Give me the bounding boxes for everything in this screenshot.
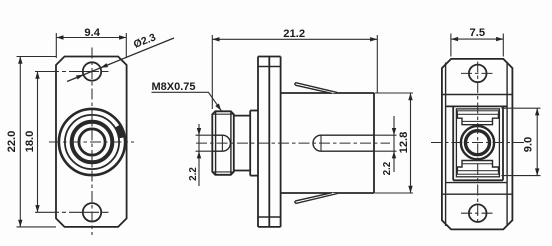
- front vertical centerline: [91, 48, 93, 236]
- front top screw hole: [83, 62, 101, 80]
- back bottom hole centerline: [461, 212, 494, 214]
- SC top key bar: [457, 111, 498, 115]
- SC shoulder line top / square outer top: [446, 105, 508, 107]
- left 2.2 dim line middle: [198, 135, 200, 151]
- flange front face: [257, 57, 259, 227]
- left 2.2 extension top: [196, 134, 213, 136]
- leader line dia 2.3 through hole: [67, 38, 174, 82]
- back ferrule circle inner: [466, 131, 490, 155]
- collar left edge: [249, 111, 251, 176]
- SC square outer bottom: [453, 179, 503, 181]
- flange chamfer line bottom: [258, 216, 281, 218]
- left 2.2 dim line lower: [198, 151, 200, 186]
- back plate inner contour left: [445, 63, 447, 227]
- body right edge: [373, 93, 375, 193]
- svg-text:22.0: 22.0: [6, 131, 18, 153]
- dimension 9.4 line: [56, 37, 126, 39]
- flange back face / body front: [280, 57, 282, 227]
- back top screw hole: [469, 65, 487, 83]
- thread chamfer line left: [215, 112, 217, 175]
- 9.4 extension left: [55, 33, 57, 58]
- front bottom screw hole: [83, 203, 101, 221]
- dimension 18.0 line: [37, 72, 39, 213]
- 22.0 extension top: [17, 56, 57, 58]
- front horizontal centerline: [49, 141, 134, 143]
- front connector circle 2: [65, 115, 119, 169]
- svg-text:M8X0.75: M8X0.75: [152, 81, 196, 93]
- dimension 7.5 line: [451, 38, 503, 40]
- flange chamfer line top: [258, 66, 281, 68]
- SC bottom key bar: [457, 171, 498, 175]
- bottom hole centerline / 18.0 extension: [35, 211, 109, 213]
- collar bottom edge: [250, 175, 258, 177]
- SC bottom key bracket: [457, 161, 498, 171]
- back plate outline: [442, 59, 513, 230]
- top hole centerline / 18.0 extension: [35, 71, 109, 73]
- dimension 21.2 line: [212, 38, 377, 40]
- dia 2.3 arrow upper-right: [101, 64, 110, 68]
- left 2.2 extension bottom: [196, 150, 213, 152]
- front key notch wedge: [115, 125, 125, 139]
- stub bore slot top line: [212, 134, 222, 136]
- flange top edge: [258, 56, 281, 58]
- front connector circle inner: [79, 129, 105, 155]
- svg-text:2.2: 2.2: [382, 161, 393, 175]
- right 2.2 extension bottom: [374, 150, 397, 152]
- back step line top: [442, 94, 513, 96]
- svg-text:21.2: 21.2: [283, 28, 305, 40]
- back top hole centerline: [461, 72, 494, 74]
- front plate outline: [56, 57, 127, 227]
- 7.5 extension right: [502, 34, 504, 57]
- bottom latch arm: [295, 193, 338, 204]
- front connector circle outer: [59, 109, 125, 175]
- 9.4 extension right: [125, 33, 127, 58]
- SC square left wall: [452, 106, 454, 180]
- body slot bottom line: [321, 150, 374, 152]
- stub bore slot tangent line: [221, 135, 223, 151]
- washer ring top edge: [234, 115, 250, 117]
- top latch arm: [295, 83, 338, 94]
- SC top key midline: [462, 120, 493, 122]
- left 2.2 dim line upper: [198, 124, 200, 135]
- back step line bottom: [442, 193, 513, 195]
- dimension 9.0 line: [536, 108, 538, 175]
- thread root line bottom: [213, 171, 234, 173]
- flange mid line: [268, 57, 270, 227]
- thread chamfer line right: [230, 112, 232, 175]
- body slot tangent line: [320, 135, 322, 151]
- thread root line top: [213, 113, 234, 115]
- SC square inner rect: [456, 109, 499, 177]
- body slot end arc: [313, 135, 321, 151]
- middle view centerline: [196, 142, 390, 144]
- 22.0 extension bottom: [17, 226, 57, 228]
- back vertical centerline: [477, 62, 479, 225]
- flange bottom edge: [258, 226, 281, 228]
- 21.2 extension right: [376, 35, 378, 93]
- dimension 22.0 line: [19, 57, 21, 227]
- right 2.2 dim line lower: [393, 151, 395, 172]
- svg-text:18.0: 18.0: [24, 131, 36, 153]
- body top edge: [281, 92, 374, 94]
- SC bottom key midline: [462, 163, 493, 165]
- 9.0 extension bottom: [501, 175, 540, 177]
- svg-text:9.4: 9.4: [84, 27, 100, 39]
- stub bore slot end arc: [222, 135, 230, 151]
- svg-text:12.8: 12.8: [398, 132, 410, 154]
- SC square right wall: [502, 106, 504, 180]
- collar top edge: [250, 110, 258, 112]
- back plate inner contour right: [506, 63, 508, 227]
- 21.2 extension left: [211, 35, 213, 109]
- SC top key bracket: [457, 114, 498, 124]
- threaded stub outline M8: [212, 111, 234, 175]
- svg-text:2.2: 2.2: [188, 167, 199, 181]
- front connector circle 3: [72, 122, 113, 163]
- 9.0 extension top: [501, 107, 540, 109]
- stub bore slot bottom line: [212, 150, 222, 152]
- M8X0.75 leader: [152, 92, 222, 110]
- svg-text:7.5: 7.5: [470, 27, 486, 39]
- back horizontal centerline: [431, 142, 524, 144]
- body bottom edge: [281, 192, 374, 194]
- 12.8 extension bottom: [375, 192, 414, 194]
- right 2.2 extension top: [374, 134, 397, 136]
- svg-text:9.0: 9.0: [523, 137, 535, 153]
- back bottom screw hole: [469, 204, 487, 222]
- back ferrule circle outer: [461, 126, 494, 159]
- dimension 12.8 line: [410, 93, 412, 193]
- body slot top line: [321, 134, 374, 136]
- dia 2.3 arrow lower-left: [74, 75, 83, 79]
- SC shoulder line bottom: [446, 182, 508, 184]
- right 2.2 dim line middle: [393, 135, 395, 151]
- washer ring bottom edge: [234, 170, 250, 172]
- 7.5 extension left: [450, 34, 452, 57]
- right 2.2 dim line upper: [393, 116, 395, 135]
- 12.8 extension top: [375, 92, 414, 94]
